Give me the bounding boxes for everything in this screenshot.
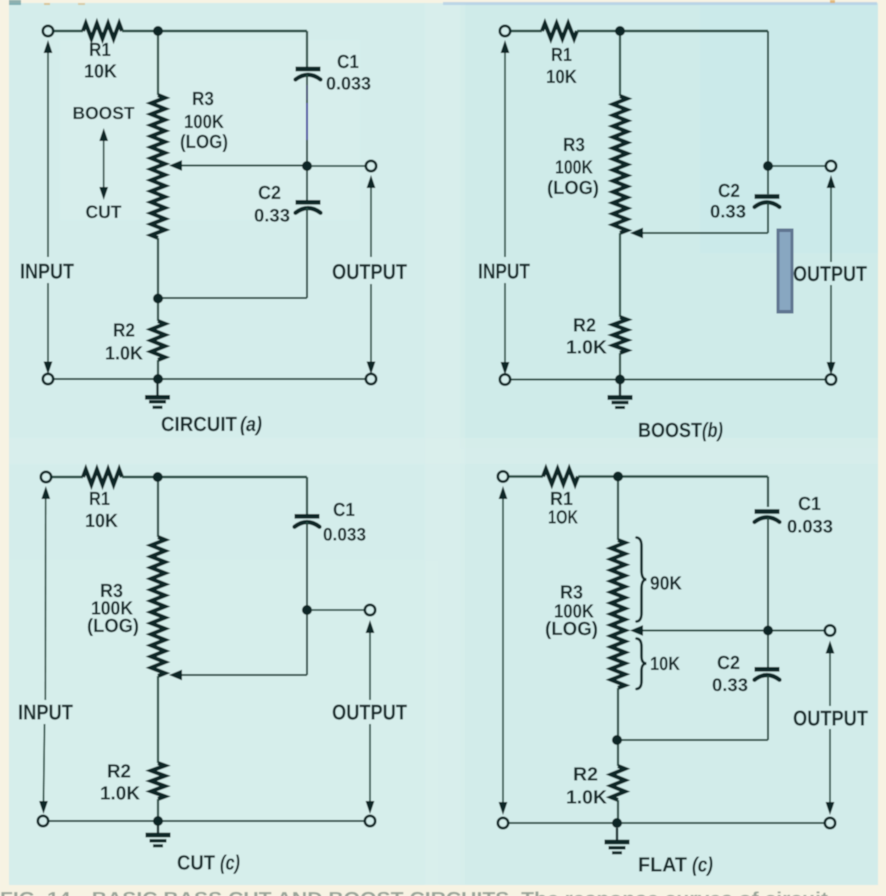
svg-text:10K: 10K xyxy=(546,67,577,88)
svg-text:R3: R3 xyxy=(560,583,583,604)
svg-text:CIRCUIT: CIRCUIT xyxy=(161,413,237,436)
svg-text:OUTPUT: OUTPUT xyxy=(332,701,407,725)
svg-text:(LOG): (LOG) xyxy=(545,619,598,640)
svg-text:C1: C1 xyxy=(798,494,821,515)
svg-text:C1: C1 xyxy=(333,500,355,521)
svg-text:1.0K: 1.0K xyxy=(105,344,143,365)
svg-text:R1: R1 xyxy=(551,45,572,66)
svg-text:R2: R2 xyxy=(573,316,596,337)
svg-text:FIG. 14—BASIC BASS CUT AND BOO: FIG. 14—BASIC BASS CUT AND BOOST CIRCUIT… xyxy=(0,889,828,896)
svg-text:OUTPUT: OUTPUT xyxy=(793,707,868,731)
svg-text:(LOG): (LOG) xyxy=(87,616,139,637)
svg-text:BOOST: BOOST xyxy=(73,103,135,123)
svg-text:INPUT: INPUT xyxy=(18,701,73,725)
svg-text:C1: C1 xyxy=(337,52,359,73)
svg-text:(b): (b) xyxy=(702,419,723,442)
svg-text:0.033: 0.033 xyxy=(787,517,833,537)
svg-text:R3: R3 xyxy=(563,135,585,156)
svg-text:100K: 100K xyxy=(555,158,593,179)
svg-text:(c): (c) xyxy=(692,854,713,877)
svg-text:C2: C2 xyxy=(718,181,740,202)
svg-text:R1: R1 xyxy=(89,489,110,510)
svg-text:0.33: 0.33 xyxy=(712,675,748,695)
svg-text:1OK: 1OK xyxy=(548,508,578,529)
svg-text:10K: 10K xyxy=(650,654,680,675)
svg-text:0.033: 0.033 xyxy=(323,525,366,545)
svg-text:1.0K: 1.0K xyxy=(566,788,607,809)
svg-text:1.0K: 1.0K xyxy=(100,784,140,805)
svg-text:CUT: CUT xyxy=(177,852,215,875)
svg-text:0.33: 0.33 xyxy=(710,202,746,222)
svg-text:R3: R3 xyxy=(192,89,214,110)
svg-text:C2: C2 xyxy=(258,183,281,204)
svg-text:FLAT: FLAT xyxy=(638,854,687,877)
svg-text:R2: R2 xyxy=(107,762,131,783)
svg-text:R2: R2 xyxy=(113,321,135,342)
svg-text:90K: 90K xyxy=(650,574,682,595)
svg-text:10K: 10K xyxy=(84,62,117,83)
svg-text:C2: C2 xyxy=(717,653,740,674)
svg-text:0.033: 0.033 xyxy=(326,74,371,94)
svg-text:(a): (a) xyxy=(240,413,262,436)
svg-text:(c): (c) xyxy=(220,852,240,875)
svg-text:R1: R1 xyxy=(89,40,111,61)
svg-text:BOOST: BOOST xyxy=(638,419,702,442)
svg-text:(LOG): (LOG) xyxy=(180,132,228,153)
svg-text:CUT: CUT xyxy=(86,202,122,222)
svg-text:(LOG): (LOG) xyxy=(547,178,599,199)
svg-text:R2: R2 xyxy=(573,765,598,786)
svg-text:INPUT: INPUT xyxy=(20,260,74,284)
svg-text:INPUT: INPUT xyxy=(478,260,530,284)
svg-text:10K: 10K xyxy=(85,511,118,532)
svg-text:100K: 100K xyxy=(184,112,224,133)
svg-text:0.33: 0.33 xyxy=(254,206,290,226)
svg-text:OUTPUT: OUTPUT xyxy=(793,262,867,286)
svg-text:1.0K: 1.0K xyxy=(566,338,607,359)
svg-text:OUTPUT: OUTPUT xyxy=(332,260,407,284)
